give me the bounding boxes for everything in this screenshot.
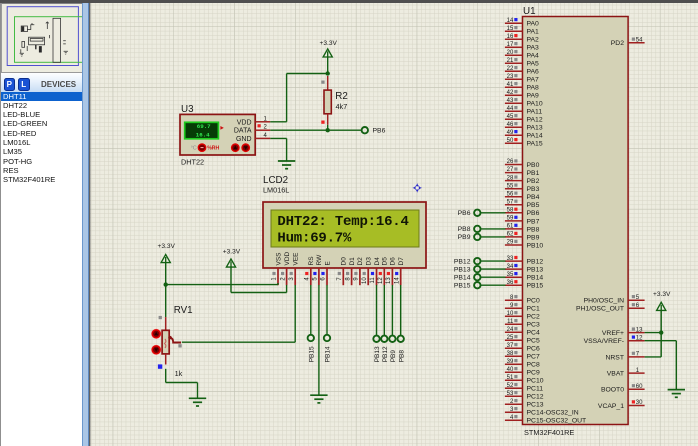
- U1 pin 7 (NRST): [605, 352, 644, 362]
- svg-text:45: 45: [507, 114, 514, 120]
- U1 pin 38 (PC7): [505, 351, 540, 361]
- LCD2 pin 11 (D4): [370, 257, 381, 285]
- svg-text:PC0: PC0: [527, 298, 540, 305]
- U1 pin 14 (PA0): [505, 18, 539, 28]
- svg-text:PC10: PC10: [527, 378, 544, 385]
- svg-text:17: 17: [507, 42, 514, 48]
- U1 pin 12 (VSSA/VREF-): [584, 335, 645, 345]
- U1 pin 46 (PA13): [505, 122, 543, 132]
- U1 pin 34 (PB13): [505, 264, 543, 274]
- microcontroller U1: [523, 6, 629, 437]
- svg-text:16.4: 16.4: [196, 131, 210, 138]
- ground (below LCD RW): [310, 395, 327, 403]
- svg-text:10: 10: [507, 311, 514, 317]
- svg-text:PB12: PB12: [382, 346, 389, 362]
- svg-text:DHT22: Temp:16.4: DHT22: Temp:16.4: [277, 214, 409, 230]
- U1 pin 24 (PC4): [505, 327, 540, 337]
- power +3.3V (left, feeds RV1 and LCD VSS): [157, 243, 175, 262]
- svg-text:PB8: PB8: [398, 350, 405, 363]
- svg-text:15: 15: [507, 26, 514, 32]
- U1 pin 13 (VREF+): [602, 327, 645, 337]
- svg-text:PB12: PB12: [527, 259, 544, 266]
- svg-text:+3.3V: +3.3V: [223, 248, 241, 255]
- junction R2 top: [326, 71, 330, 75]
- svg-text:U1: U1: [523, 6, 536, 17]
- svg-text:55: 55: [507, 183, 514, 189]
- svg-text:43: 43: [507, 98, 514, 104]
- svg-text:PD2: PD2: [611, 40, 624, 47]
- U1 pin 11 (PC3): [505, 319, 540, 329]
- svg-text:PB9: PB9: [390, 350, 397, 363]
- U3 pin 4 (GND): [255, 133, 270, 139]
- U1 pin 60 (BOOT0): [601, 384, 645, 394]
- terminal PB6: [458, 210, 506, 218]
- svg-text:49: 49: [507, 130, 514, 136]
- power +3.3V (second, feeds LCD VDD): [223, 248, 241, 267]
- U1 pin 39 (PC8): [505, 359, 540, 369]
- svg-text:PC12: PC12: [527, 394, 544, 401]
- svg-text:40: 40: [507, 367, 514, 373]
- wire junction to U3 VDD (left + down): [270, 74, 327, 122]
- svg-text:PB5: PB5: [527, 202, 540, 209]
- U1 pin 44 (PA11): [505, 106, 542, 116]
- svg-text:60: 60: [636, 384, 643, 390]
- svg-text:14: 14: [507, 18, 514, 24]
- svg-text:62: 62: [507, 232, 514, 238]
- U1 pin 52 (PC11): [505, 383, 543, 393]
- svg-text:PH0/OSC_IN: PH0/OSC_IN: [584, 298, 625, 305]
- svg-text:VDD: VDD: [237, 119, 252, 126]
- svg-text:PA12: PA12: [527, 117, 543, 124]
- svg-text:20: 20: [507, 50, 514, 56]
- wire junction to LCD VSS: [166, 283, 278, 285]
- wire LCD data pin to terminal PB13: [376, 285, 378, 335]
- svg-text:PB7: PB7: [527, 218, 540, 225]
- svg-text:D0: D0: [341, 257, 348, 266]
- ground (below RV1): [189, 398, 206, 406]
- svg-text:PB6: PB6: [458, 210, 471, 217]
- svg-text:PC6: PC6: [527, 346, 540, 353]
- wire +3.3V down to junction: [327, 57, 329, 74]
- wire U3 DATA to terminal PB6: [270, 129, 361, 131]
- U1 pin 27 (PB1): [505, 167, 540, 177]
- wire +3.3V to LCD VDD: [231, 267, 287, 293]
- U1 pin 49 (PA14): [505, 130, 543, 140]
- svg-text:PC14-OSC32_IN: PC14-OSC32_IN: [527, 410, 579, 417]
- svg-text:56: 56: [507, 191, 514, 197]
- svg-text:PA1: PA1: [527, 29, 540, 36]
- U1 pin 41 (PA8): [505, 82, 539, 92]
- svg-text:PB8: PB8: [527, 226, 540, 233]
- U1 pin 37 (PC6): [505, 343, 540, 353]
- svg-text:RW: RW: [316, 254, 323, 266]
- svg-text:D2: D2: [357, 257, 364, 266]
- wire NRST: [645, 356, 662, 358]
- svg-text:11: 11: [370, 277, 376, 284]
- svg-text:4k7: 4k7: [336, 102, 348, 111]
- wire U3 GND to ground: [270, 138, 286, 161]
- svg-text:51: 51: [507, 375, 514, 381]
- U1 pin 8 (PC0): [505, 295, 540, 305]
- U1 pin 61 (PB8): [505, 224, 540, 234]
- svg-text:27: 27: [507, 167, 514, 173]
- LCD LCD2 (LM016L): [263, 175, 426, 268]
- U1 pin 17 (PA3): [505, 42, 539, 52]
- svg-text:PB12: PB12: [454, 258, 471, 265]
- U1 pin 21 (PA5): [505, 58, 539, 68]
- svg-text:54: 54: [636, 37, 643, 43]
- svg-text:46: 46: [507, 122, 514, 128]
- svg-text:VEE: VEE: [293, 252, 300, 266]
- svg-text:+3.3V: +3.3V: [653, 291, 671, 298]
- svg-text:PA7: PA7: [527, 77, 540, 84]
- svg-text:E: E: [324, 261, 331, 266]
- svg-text:PB14: PB14: [325, 346, 332, 362]
- svg-text:58: 58: [507, 208, 514, 214]
- svg-text:61: 61: [507, 224, 514, 230]
- svg-text:°C: °C: [191, 146, 197, 152]
- U1 pin 9 (PC1): [505, 303, 540, 313]
- svg-text:PB10: PB10: [527, 242, 544, 249]
- svg-text:VSS: VSS: [275, 252, 282, 266]
- LCD2 pin 12 (D5): [378, 257, 389, 285]
- svg-text:PB0: PB0: [527, 162, 540, 169]
- svg-text:LCD2: LCD2: [263, 175, 288, 186]
- svg-text:1k: 1k: [175, 369, 183, 378]
- LCD2 pin 13 (D6): [386, 257, 397, 285]
- svg-text:RV1: RV1: [174, 305, 193, 316]
- svg-text:PA11: PA11: [527, 109, 543, 116]
- node marker (blue origin diamond): [412, 183, 422, 193]
- svg-text:24: 24: [507, 327, 514, 333]
- U1 pin 55 (PB3): [505, 183, 540, 193]
- svg-text:R2: R2: [335, 91, 348, 102]
- terminal PB12 (below LCD): [381, 336, 389, 363]
- svg-text:16: 16: [507, 34, 514, 40]
- svg-text:Hum:69.7%: Hum:69.7%: [277, 231, 352, 247]
- U1 pin 62 (PB9): [505, 232, 540, 242]
- svg-text:34: 34: [507, 264, 514, 270]
- svg-text:44: 44: [507, 106, 514, 112]
- svg-text:PB14: PB14: [454, 275, 471, 282]
- U1 pin 6 (PH1/OSC_OUT): [576, 303, 645, 313]
- LCD2 pin 10 (D3): [362, 257, 373, 285]
- wire LCD data pin to terminal PB9: [391, 285, 393, 335]
- U1 pin 42 (PA9): [505, 90, 539, 100]
- U1 pin 36 (PB15): [505, 280, 543, 290]
- svg-text:PB3: PB3: [527, 186, 540, 193]
- svg-text:D1: D1: [349, 257, 356, 266]
- wire +3.3V to NRST: [660, 310, 662, 357]
- svg-text:PA10: PA10: [527, 101, 543, 108]
- svg-text:PA9: PA9: [527, 93, 540, 100]
- U1 pin 58 (PB6): [505, 208, 540, 218]
- device selector header with P/L buttons: [1, 72, 84, 93]
- svg-text:D7: D7: [398, 257, 405, 266]
- wire RV1 bottom to ground: [166, 369, 198, 399]
- U1 pin 26 (PB0): [505, 159, 540, 169]
- svg-text:39: 39: [507, 359, 514, 365]
- svg-text:PB6: PB6: [373, 128, 386, 135]
- LCD2 pin 6 (E): [321, 261, 332, 286]
- LCD2 pin 14 (D7): [394, 257, 405, 285]
- svg-text:14: 14: [394, 277, 400, 284]
- svg-text:53: 53: [507, 391, 514, 397]
- U1 pin 5 (PH0/OSC_IN): [584, 295, 645, 305]
- svg-text:NRST: NRST: [605, 354, 624, 361]
- wire +3.3V junction down to RV1: [165, 285, 167, 318]
- junction RV1/+3.3V/VSS: [164, 282, 168, 286]
- U1 pin 20 (PA4): [505, 50, 539, 60]
- svg-text:37: 37: [507, 343, 514, 349]
- svg-text:PB13: PB13: [527, 267, 544, 274]
- terminal PB9: [458, 234, 506, 242]
- U1 pin 45 (PA12): [505, 114, 543, 124]
- wire LCD data pin to terminal PB12: [383, 285, 385, 335]
- terminal PB13: [454, 266, 506, 274]
- power +3.3V (near U1): [653, 291, 671, 310]
- svg-text:PC8: PC8: [527, 362, 540, 369]
- U1 pin 22 (PA6): [505, 66, 539, 76]
- U1 pin 4 (PC15-OSC32_OUT): [505, 415, 586, 425]
- svg-text:PB2: PB2: [527, 178, 540, 185]
- wire LCD RS down to terminal: [310, 285, 312, 335]
- U1 pin 28 (PB2): [505, 175, 540, 185]
- U1 pin 50 (PA15): [505, 138, 543, 148]
- U1 pin 53 (PC12): [505, 391, 544, 401]
- svg-text:PC3: PC3: [527, 322, 540, 329]
- svg-text:PA6: PA6: [527, 69, 540, 76]
- svg-text:VSSA/VREF-: VSSA/VREF-: [584, 338, 624, 345]
- svg-text:PB9: PB9: [458, 234, 471, 241]
- svg-text:PB13: PB13: [374, 346, 381, 362]
- svg-text:PA14: PA14: [527, 133, 543, 140]
- svg-text:PA15: PA15: [527, 141, 543, 148]
- svg-text:D6: D6: [390, 257, 397, 266]
- svg-text:VBAT: VBAT: [607, 371, 624, 378]
- svg-text:%RH: %RH: [207, 146, 219, 152]
- terminal PB15: [454, 282, 506, 290]
- U1 pin 35 (PB14): [505, 272, 543, 282]
- ground (right of U1): [668, 390, 685, 398]
- U1 pin 10 (PC2): [505, 311, 540, 321]
- LCD2 pin 4 (RS): [305, 256, 316, 285]
- terminal PB14: [454, 274, 506, 282]
- svg-text:PA0: PA0: [527, 21, 540, 28]
- svg-text:21: 21: [507, 58, 514, 64]
- wire LCD data pin to terminal PB8: [400, 285, 402, 335]
- separator strip: [82, 3, 89, 446]
- wire VSSA/VREF- to ground: [645, 341, 677, 390]
- svg-text:29: 29: [507, 240, 514, 246]
- svg-text:PC9: PC9: [527, 370, 540, 377]
- LCD2 pin 7 (D0): [337, 257, 348, 285]
- junction VREF+/+3.3V: [659, 330, 663, 334]
- svg-text:25: 25: [507, 335, 514, 341]
- svg-text:PA13: PA13: [527, 125, 543, 132]
- terminal PB12: [454, 258, 506, 266]
- svg-text:PB15: PB15: [309, 346, 316, 362]
- svg-text:PC15-OSC32_OUT: PC15-OSC32_OUT: [527, 418, 587, 425]
- svg-text:PB8: PB8: [458, 226, 471, 233]
- U1 pin 2 (PC13): [505, 399, 544, 409]
- U1 pin 59 (PB7): [505, 216, 540, 226]
- svg-text:D4: D4: [374, 257, 381, 266]
- svg-text:DHT22: DHT22: [181, 158, 204, 167]
- svg-text:35: 35: [507, 272, 514, 278]
- svg-text:PC7: PC7: [527, 354, 540, 361]
- wire LCD E down to terminal: [326, 285, 328, 335]
- U1 pin 23 (PA7): [505, 74, 539, 84]
- svg-text:22: 22: [507, 66, 514, 72]
- terminal PB8 (below LCD): [398, 336, 406, 363]
- svg-text:DATA: DATA: [234, 128, 252, 135]
- U1 pin 15 (PA1): [505, 26, 539, 36]
- svg-text:69.7: 69.7: [197, 123, 211, 130]
- U1 pin 29 (PB10): [505, 240, 543, 250]
- U1 pin 33 (PB12): [505, 256, 543, 266]
- svg-text:PB14: PB14: [527, 275, 544, 282]
- svg-text:+3.3V: +3.3V: [157, 243, 175, 250]
- U1 pin 3 (PC14-OSC32_IN): [505, 407, 579, 417]
- svg-text:PC13: PC13: [527, 402, 544, 409]
- LCD2 pin 5 (RW): [313, 254, 324, 285]
- terminal PB9 (below LCD): [389, 336, 397, 363]
- svg-text:PC4: PC4: [527, 330, 540, 337]
- junction R2/DATA: [326, 128, 330, 132]
- svg-text:PB9: PB9: [527, 234, 540, 241]
- svg-text:13: 13: [636, 327, 643, 333]
- wire LCD RW to ground: [318, 285, 320, 395]
- svg-text:23: 23: [507, 74, 514, 80]
- U1 pin 1 (VBAT): [607, 368, 645, 378]
- svg-text:26: 26: [507, 159, 514, 165]
- device list: [1, 92, 84, 446]
- wire +3.3V down to junction: [165, 262, 167, 285]
- svg-text:PH1/OSC_OUT: PH1/OSC_OUT: [576, 306, 624, 313]
- svg-text:D3: D3: [366, 257, 373, 266]
- svg-text:33: 33: [507, 256, 514, 262]
- svg-text:PC2: PC2: [527, 314, 540, 321]
- svg-text:13: 13: [386, 277, 392, 284]
- svg-text:PC11: PC11: [527, 386, 544, 393]
- U1 pin 40 (PC9): [505, 367, 540, 377]
- U1 pin 54 (PD2): [611, 37, 645, 47]
- svg-text:59: 59: [507, 216, 514, 222]
- terminal PB6 (at R2): [362, 127, 386, 135]
- svg-text:52: 52: [507, 383, 514, 389]
- ground (below U3): [278, 161, 295, 169]
- svg-text:PC5: PC5: [527, 338, 540, 345]
- LCD2 pin 8 (D1): [345, 257, 356, 285]
- wire VREF+: [645, 332, 662, 334]
- svg-text:38: 38: [507, 351, 514, 357]
- svg-text:U3: U3: [181, 104, 194, 115]
- terminal PB15 (below LCD RS): [308, 335, 316, 363]
- U1 pin 25 (PC5): [505, 335, 540, 345]
- svg-text:12: 12: [378, 277, 384, 284]
- U3 pin 1 (VDD): [255, 116, 270, 122]
- svg-text:PA5: PA5: [527, 61, 540, 68]
- wire R2 bottom to DATA line: [327, 125, 329, 130]
- svg-text:PC1: PC1: [527, 306, 540, 313]
- svg-text:41: 41: [507, 82, 514, 88]
- potentiometer RV1: [152, 305, 193, 378]
- svg-text:11: 11: [507, 319, 514, 325]
- svg-text:PB6: PB6: [527, 210, 540, 217]
- svg-text:VCAP_1: VCAP_1: [598, 403, 624, 410]
- LCD2 pin 3 (VEE): [289, 252, 300, 285]
- terminal PB13 (below LCD): [373, 336, 381, 363]
- LCD2 pin 2 (VDD): [280, 251, 291, 285]
- svg-text:BOOT0: BOOT0: [601, 387, 624, 394]
- U3 pin 2 (DATA): [255, 124, 270, 131]
- svg-text:42: 42: [507, 90, 514, 96]
- svg-text:PB13: PB13: [454, 266, 471, 273]
- svg-text:LM016L: LM016L: [263, 186, 289, 195]
- terminal PB14 (below LCD E): [324, 335, 332, 363]
- svg-text:PB15: PB15: [527, 283, 544, 290]
- U1 pin 43 (PA10): [505, 98, 543, 108]
- svg-text:57: 57: [507, 199, 514, 205]
- left panel: part preview window: [0, 3, 82, 446]
- svg-text:12: 12: [636, 335, 643, 341]
- terminal PB8: [458, 226, 506, 234]
- LCD2 pin 9 (D2): [354, 257, 365, 285]
- U1 pin 56 (PB4): [505, 191, 540, 201]
- svg-text:PB1: PB1: [527, 170, 540, 177]
- U1 pin 30 (VCAP_1): [598, 400, 645, 410]
- resistor R2: [321, 76, 348, 125]
- svg-text:PA2: PA2: [527, 37, 540, 44]
- svg-text:50: 50: [507, 138, 514, 144]
- svg-text:VDD: VDD: [284, 251, 291, 265]
- svg-text:PA8: PA8: [527, 85, 540, 92]
- sensor U3 (DHT22): [180, 104, 255, 166]
- svg-text:D5: D5: [382, 257, 389, 266]
- svg-text:PB15: PB15: [454, 283, 471, 290]
- svg-text:PA3: PA3: [527, 45, 540, 52]
- svg-text:10: 10: [362, 277, 368, 284]
- svg-text:36: 36: [507, 280, 514, 286]
- power +3.3V (top, feeds R2 and U3 VDD): [319, 40, 337, 57]
- svg-text:GND: GND: [236, 136, 252, 143]
- svg-text:PB4: PB4: [527, 194, 540, 201]
- svg-text:28: 28: [507, 175, 514, 181]
- svg-text:VREF+: VREF+: [602, 330, 624, 337]
- LCD2 pin 1 (VSS): [272, 252, 283, 285]
- svg-text:30: 30: [636, 400, 643, 406]
- wire LCD VEE to RV1 wiper: [182, 285, 295, 342]
- svg-text:+3.3V: +3.3V: [319, 40, 337, 47]
- svg-text:RS: RS: [308, 256, 315, 266]
- svg-text:PA4: PA4: [527, 53, 540, 60]
- U1 pin 51 (PC10): [505, 375, 544, 385]
- U1 pin 57 (PB5): [505, 199, 540, 209]
- U1 pin 16 (PA2): [505, 34, 539, 44]
- svg-text:STM32F401RE: STM32F401RE: [524, 428, 574, 437]
